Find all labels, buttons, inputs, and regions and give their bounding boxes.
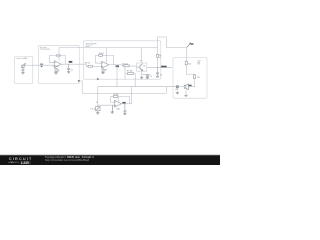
P1 drop from bus — [97, 93, 99, 106]
wire U3 inverting input — [111, 97, 115, 103]
transistor Q1 box — [137, 63, 147, 71]
battery V1 flag — [187, 43, 191, 47]
enclosure box2 (first amplifier stage) — [39, 45, 80, 83]
svg-text:R1: R1 — [58, 69, 60, 71]
output wire stage2 — [109, 64, 123, 66]
potentiometer P1 — [96, 106, 100, 112]
node out2 label — [116, 65, 119, 67]
speaker SPKR1 — [184, 84, 188, 90]
U1 power riser — [58, 48, 60, 61]
resistor R5 to ground under U2 — [102, 68, 104, 72]
op-amp U3 — [114, 100, 121, 107]
emitter wire — [142, 71, 151, 74]
wire R8 to output — [157, 57, 159, 67]
wire out2 drop to speaker line — [116, 65, 118, 87]
ground under R1 — [54, 73, 57, 75]
speaker feed line — [98, 86, 176, 88]
box1 title — [16, 57, 28, 60]
resistor R1 to ground — [55, 68, 57, 73]
capacitor C1 to ground — [67, 64, 70, 71]
resistor R2 feedback — [56, 55, 60, 57]
svg-text:Q1: Q1 — [143, 66, 145, 68]
logo wave — [8, 161, 19, 163]
U3 output riser — [131, 87, 133, 104]
svg-text:C1: C1 — [71, 70, 73, 72]
svg-text:P1: P1 — [96, 102, 98, 104]
feedback wire U1 — [49, 55, 65, 64]
node out1 label — [69, 61, 73, 63]
collector riser — [141, 48, 143, 63]
svg-text:R3 10k: R3 10k — [85, 63, 90, 65]
ground under C5 — [123, 113, 126, 116]
ammeter X1 — [176, 85, 179, 88]
wire R6 to transistor — [129, 65, 136, 67]
U2 power riser — [105, 48, 107, 63]
resistor R8 — [157, 54, 159, 57]
svg-text:drive: drive — [86, 46, 90, 48]
wire U1 inverting input — [49, 55, 54, 62]
R8 supply stub — [157, 48, 159, 55]
bias riser — [124, 66, 126, 79]
ground stub left of U3 — [111, 105, 114, 113]
output wire stage1 — [61, 63, 86, 65]
rail to battery — [167, 47, 187, 49]
collector pin tick — [140, 60, 142, 62]
svg-text:C3: C3 — [150, 76, 152, 78]
capacitor C5 under U3 — [123, 104, 126, 114]
input port label — [40, 64, 43, 65]
svg-text:R2 47k: R2 47k — [45, 49, 50, 51]
svg-text:R9 22k: R9 22k — [114, 94, 119, 96]
wire bias to R7 — [125, 73, 128, 75]
resistor R6 base — [124, 65, 130, 67]
svg-text:Input from: Input from — [16, 57, 24, 60]
emitter ground drop — [141, 74, 143, 77]
box3 bottom port dot — [97, 78, 99, 79]
op-amp U2 — [102, 61, 109, 68]
ground under P1 — [96, 112, 99, 114]
resistor R10 — [185, 61, 187, 65]
svg-text:LAB: LAB — [21, 161, 29, 165]
svg-text:R6 4.7k: R6 4.7k — [123, 63, 129, 65]
capacitor C3 bypass — [146, 74, 149, 77]
supply rail — [59, 47, 158, 49]
ground under emitter — [140, 77, 143, 79]
box3 title — [86, 42, 97, 48]
wire R7 to riser — [134, 74, 136, 87]
svg-text:1k: 1k — [159, 57, 161, 59]
wire to U3 noninverting input — [98, 104, 115, 106]
svg-text:R4 47k: R4 47k — [99, 53, 104, 55]
resistor R4 feedback — [99, 54, 103, 56]
enclosure box1 (microphone input) — [15, 57, 33, 84]
enclosure box3 (second amplifier stage) — [83, 41, 160, 79]
ground under C4 — [156, 75, 159, 78]
wire U2 inverting input — [96, 55, 102, 63]
ground under speaker — [184, 94, 187, 97]
U3 power stub — [117, 97, 119, 102]
op-amp U1 — [54, 61, 61, 68]
wire into box3 — [86, 64, 88, 66]
svg-text:C4: C4 — [160, 74, 162, 76]
box2 title — [40, 46, 47, 51]
SPKR1 label — [189, 85, 192, 86]
svg-text:X1: X1 — [175, 89, 177, 91]
footer bar — [0, 155, 220, 165]
wire R11 to speaker — [188, 79, 194, 87]
rail hop — [158, 37, 167, 48]
svg-text:1k: 1k — [94, 109, 96, 111]
node out3 label — [122, 102, 125, 104]
svg-text:1k: 1k — [58, 71, 60, 73]
U3 polarity marks — [114, 101, 117, 104]
U1 polarity marks — [54, 61, 57, 64]
capacitor C4 — [156, 67, 159, 76]
box4 title — [197, 59, 201, 65]
output wire to speaker box — [147, 66, 172, 68]
feedback wire U2 — [96, 54, 99, 56]
wire R3 to U2 — [92, 65, 101, 67]
footer bar top blur — [0, 154, 220, 156]
ground under C3 — [146, 77, 149, 80]
svg-text:http://circuitlab.com/c/rs1345: http://circuitlab.com/c/rs1345fu85e8 — [45, 158, 90, 162]
box2 fb port dot — [78, 80, 80, 81]
U2 polarity marks — [101, 62, 104, 65]
resistor R11 — [193, 75, 195, 79]
enclosure box4 (speaker out) — [173, 58, 207, 99]
node output label — [161, 66, 167, 68]
ground under R5 — [101, 72, 104, 75]
capacitor in box1 — [22, 68, 25, 73]
logo LAB badge — [20, 161, 31, 164]
V1 label — [191, 43, 194, 45]
wire port to bus riser — [80, 81, 83, 93]
svg-text:R10: R10 — [188, 63, 191, 65]
bus wire bottom — [82, 92, 166, 94]
wire mic out — [24, 64, 32, 66]
speaker ground drop — [185, 90, 187, 96]
wire battery down — [185, 48, 187, 62]
ground in box1 — [21, 72, 24, 74]
wire box1 to box2 — [33, 64, 53, 66]
ground under X1 — [176, 92, 179, 94]
resistor R9 feedback — [113, 96, 117, 98]
microphone MIC1 — [21, 63, 25, 68]
wire jog to base resistor — [123, 65, 124, 66]
feedback wire U3 — [111, 96, 114, 98]
svg-text:R7 10k: R7 10k — [127, 71, 133, 73]
wire jog to noninverting input — [53, 64, 54, 67]
X1 ground drop — [176, 88, 178, 92]
transistor Q1 — [137, 64, 143, 71]
resistor R3 input — [88, 65, 92, 67]
wire X1 to speaker — [179, 86, 185, 88]
riser left — [97, 87, 99, 94]
resistor R7 — [128, 73, 134, 75]
input port flag — [40, 66, 43, 67]
svg-text:R11: R11 — [197, 77, 200, 79]
ground under C1 — [67, 71, 70, 73]
output wire U3 — [122, 103, 132, 105]
riser right — [165, 87, 167, 94]
wire R10 down and over — [186, 65, 194, 75]
